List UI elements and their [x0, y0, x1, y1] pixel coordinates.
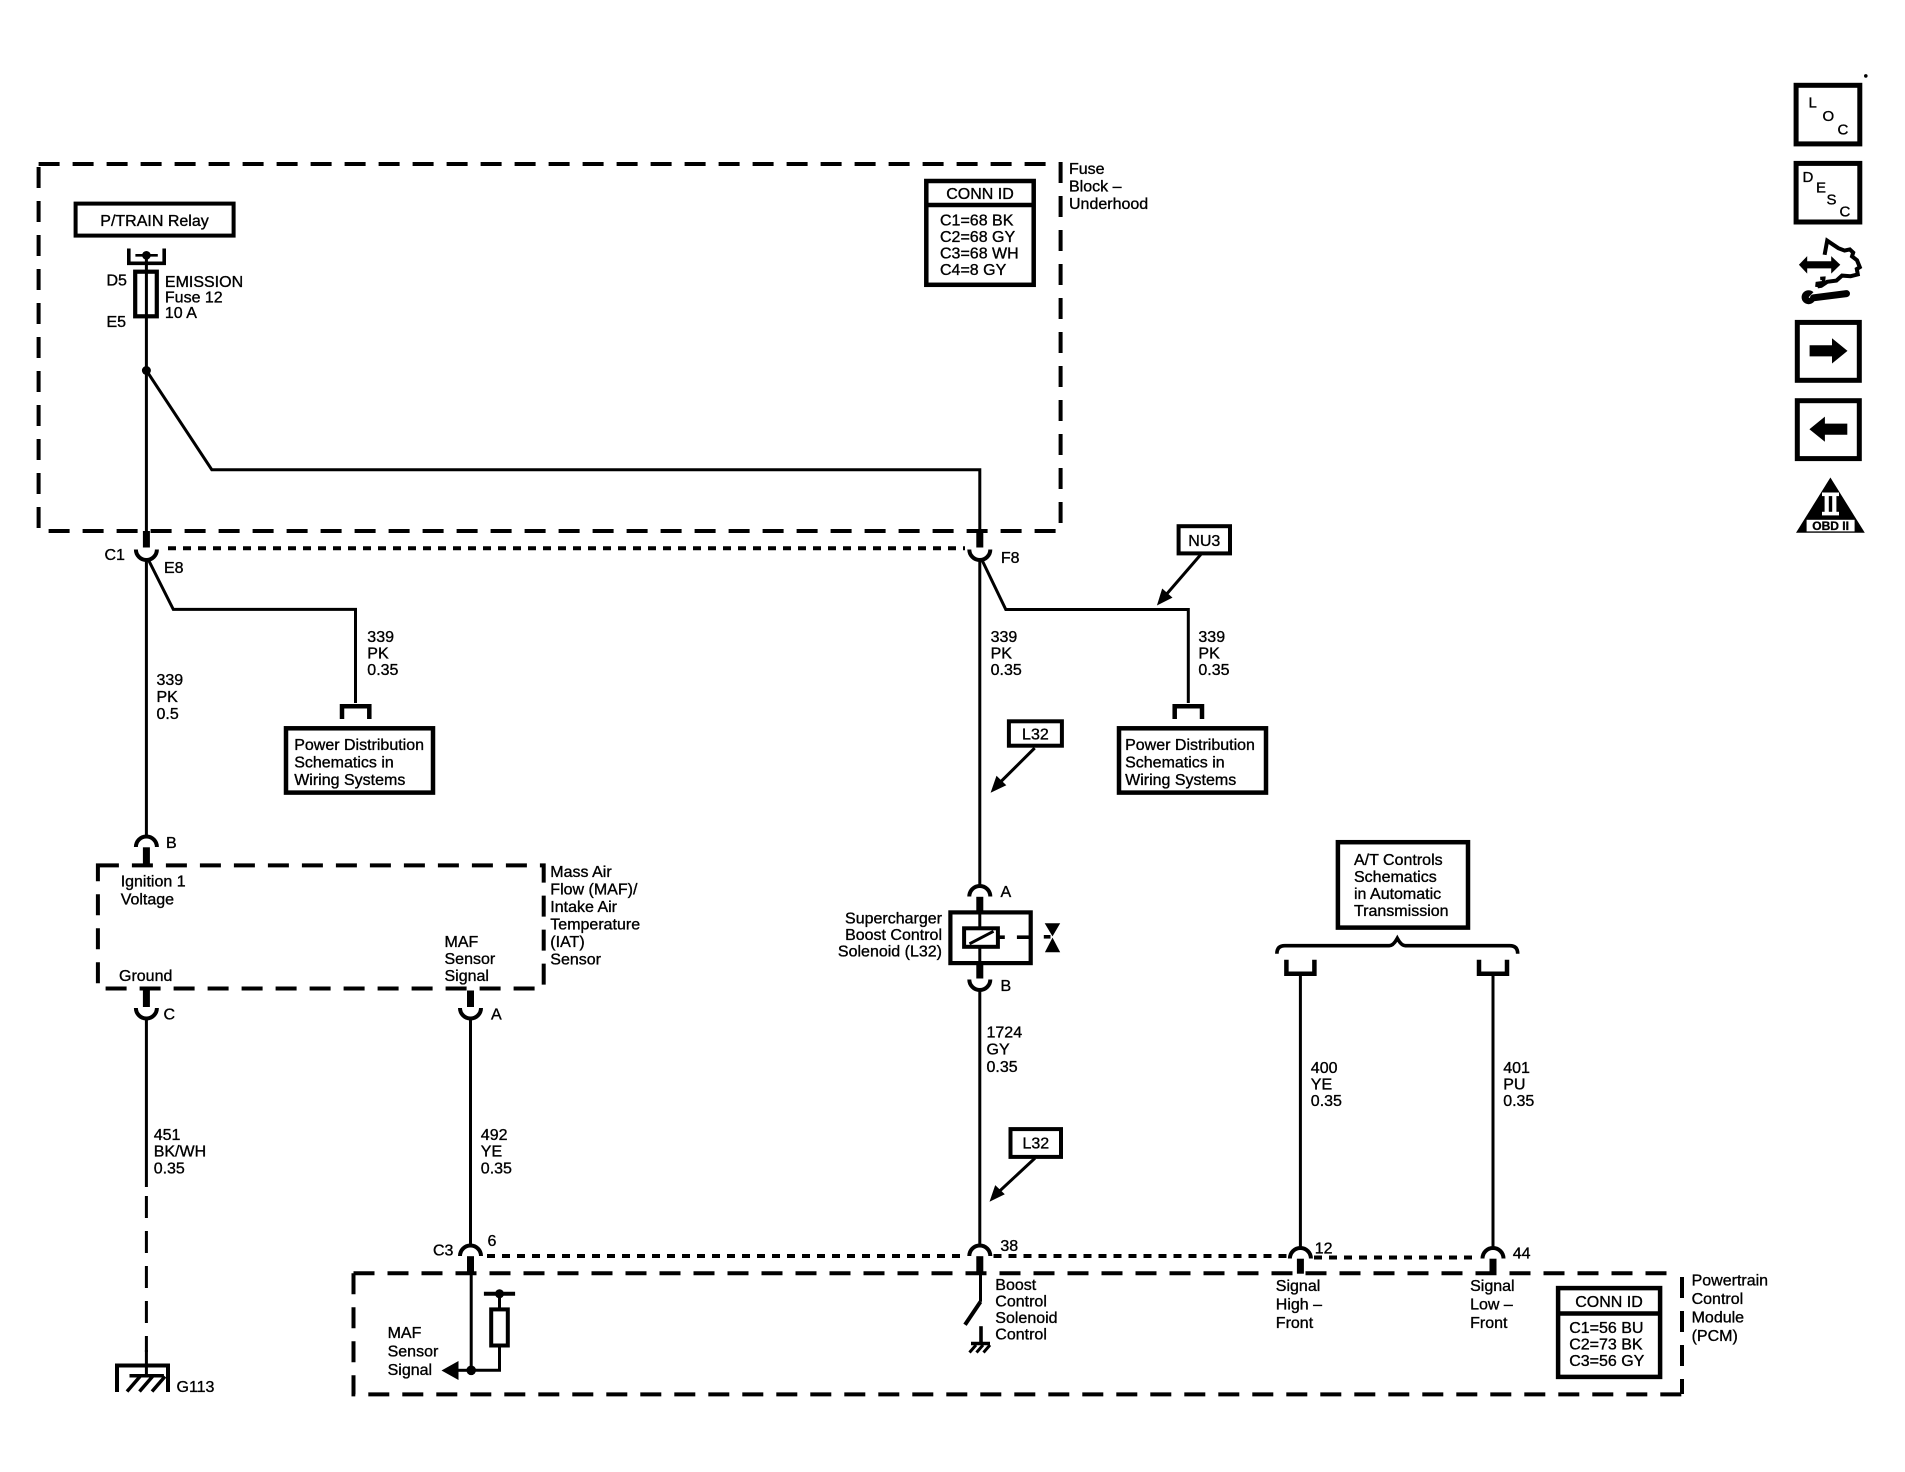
svg-text:PK: PK	[1198, 646, 1220, 663]
PCM wire C3 to junction	[470, 1273, 473, 1370]
wire junction to F8	[146, 371, 979, 532]
power distribution box left	[286, 728, 433, 792]
svg-text:D: D	[1803, 169, 1814, 186]
svg-text:CONN ID: CONN ID	[1575, 1294, 1643, 1311]
svg-text:A: A	[491, 1007, 502, 1024]
svg-text:44: 44	[1513, 1246, 1531, 1263]
svg-text:C1=68 BK: C1=68 BK	[940, 213, 1014, 230]
fuse block underhood dashed box	[39, 164, 1061, 531]
MAF IAT sensor dashed box	[98, 865, 544, 988]
resistor lead to junction	[471, 1346, 499, 1371]
svg-text:High –: High –	[1276, 1297, 1322, 1314]
stray dot top right	[1864, 74, 1868, 78]
svg-text:339: 339	[367, 629, 394, 646]
svg-text:Schematics in: Schematics in	[294, 755, 394, 772]
connector C1 arc	[136, 550, 157, 561]
connector C3 arc	[460, 1246, 481, 1257]
supercharger boost control solenoid box	[950, 912, 1030, 963]
PCM pullup junction dot	[495, 1289, 504, 1298]
connector F8 arc	[969, 550, 990, 561]
svg-text:0.35: 0.35	[367, 662, 398, 679]
brace	[1277, 938, 1518, 953]
svg-text:Control: Control	[1692, 1291, 1744, 1308]
relay terminal junction dot	[142, 251, 151, 260]
wire 38 to switch	[979, 1273, 982, 1302]
junction node	[142, 366, 151, 375]
svg-text:Solenoid: Solenoid	[995, 1310, 1057, 1327]
valve stub	[1044, 935, 1051, 939]
ground G113 hatches	[127, 1377, 140, 1392]
svg-text:Schematics in: Schematics in	[1125, 755, 1225, 772]
svg-text:Temperature: Temperature	[550, 917, 640, 934]
connector B pin	[143, 847, 150, 865]
svg-text:(PCM): (PCM)	[1692, 1328, 1738, 1345]
svg-text:Power Distribution: Power Distribution	[1125, 737, 1255, 754]
svg-text:A: A	[1001, 884, 1012, 901]
svg-text:C1: C1	[105, 547, 126, 564]
junction dot main	[466, 1366, 476, 1376]
CONN ID table fuse block	[926, 181, 1033, 285]
svg-text:BK/WH: BK/WH	[154, 1144, 206, 1161]
wire F8 to solenoid A 339 PK	[978, 558, 981, 886]
svg-text:L32: L32	[1022, 1136, 1049, 1153]
svg-text:1724: 1724	[987, 1025, 1023, 1042]
svg-text:339: 339	[1198, 629, 1225, 646]
icon OBD II triangle	[1796, 478, 1865, 533]
svg-text:P/TRAIN Relay: P/TRAIN Relay	[100, 213, 208, 230]
svg-text:10 A: 10 A	[165, 305, 197, 322]
PCM dashed box	[354, 1271, 1677, 1275]
svg-text:451: 451	[154, 1127, 181, 1144]
svg-text:Intake Air: Intake Air	[550, 899, 617, 916]
icon DESC box	[1796, 163, 1860, 222]
svg-text:Voltage: Voltage	[121, 892, 174, 909]
svg-text:NU3: NU3	[1188, 533, 1220, 550]
svg-text:0.35: 0.35	[991, 662, 1022, 679]
svg-text:38: 38	[1000, 1238, 1018, 1255]
svg-text:6: 6	[488, 1233, 497, 1250]
svg-text:Ignition 1: Ignition 1	[121, 874, 186, 891]
svg-text:D5: D5	[107, 273, 128, 290]
ground G113 bar	[130, 1374, 164, 1378]
MAF signal arrow line	[456, 1369, 471, 1372]
svg-text:339: 339	[157, 672, 184, 689]
svg-text:Control: Control	[995, 1294, 1047, 1311]
svg-text:PK: PK	[157, 689, 179, 706]
svg-text:B: B	[1001, 978, 1012, 995]
svg-text:Sensor: Sensor	[388, 1344, 439, 1361]
wire C1 to B 339 PK 0.5	[145, 558, 148, 837]
PCM pullup T bar	[484, 1292, 515, 1296]
svg-text:Module: Module	[1692, 1310, 1745, 1327]
svg-text:G113: G113	[177, 1379, 215, 1396]
svg-text:O: O	[1823, 108, 1835, 125]
ground G113 bracket	[117, 1366, 168, 1393]
svg-text:Block –: Block –	[1069, 179, 1122, 196]
NU3 arrow	[1165, 554, 1201, 596]
svg-text:Control: Control	[995, 1327, 1047, 1344]
wire E8 branch to power distribution	[148, 559, 356, 703]
CONN ID table PCM	[1558, 1288, 1660, 1377]
MAF signal arrowhead	[442, 1361, 459, 1380]
receptacle above power distribution box	[342, 706, 369, 719]
wire F8 branch to NU3 power distribution	[982, 559, 1189, 703]
svg-text:0.35: 0.35	[154, 1161, 185, 1178]
PCM pullup lead	[498, 1294, 501, 1310]
svg-text:Flow (MAF)/: Flow (MAF)/	[550, 882, 638, 899]
wire 451 BK/WH solid part	[145, 1017, 148, 1188]
svg-text:EMISSION: EMISSION	[165, 274, 243, 291]
connector B arc	[136, 837, 157, 847]
relay terminal bracket	[129, 249, 164, 264]
switch blade	[965, 1302, 981, 1325]
svg-text:Wiring Systems: Wiring Systems	[294, 772, 405, 789]
connector C1 pin	[143, 531, 150, 548]
svg-text:Signal: Signal	[445, 968, 489, 985]
svg-text:0.35: 0.35	[987, 1059, 1018, 1076]
svg-text:Fuse: Fuse	[1069, 161, 1105, 178]
icon back arrow box	[1797, 401, 1859, 459]
svg-text:400: 400	[1311, 1060, 1338, 1077]
icon vehicle double arrow wrench	[1799, 241, 1860, 305]
connector row E8 dotted line	[168, 546, 965, 550]
wire 1724 GY solenoid B to 38	[978, 988, 981, 1245]
solenoid coil	[964, 928, 998, 947]
svg-text:Boost: Boost	[995, 1277, 1036, 1294]
valve hourglass	[1045, 923, 1061, 936]
svg-text:Powertrain: Powertrain	[1692, 1273, 1768, 1290]
svg-text:OBD II: OBD II	[1812, 519, 1849, 533]
svg-text:0.35: 0.35	[1198, 662, 1229, 679]
connector 44 pin	[1490, 1259, 1497, 1274]
svg-text:Sensor: Sensor	[445, 951, 496, 968]
svg-text:Signal: Signal	[1470, 1278, 1514, 1295]
svg-text:Signal: Signal	[1276, 1278, 1320, 1295]
svg-text:MAF: MAF	[445, 934, 479, 951]
boost ground stub	[979, 1326, 983, 1343]
svg-text:S: S	[1827, 192, 1837, 209]
svg-text:Supercharger: Supercharger	[845, 911, 943, 928]
fuse EMISSION Fuse 12 10A	[135, 272, 157, 317]
L32 arrow lower	[997, 1158, 1035, 1193]
receptacle 400	[1286, 960, 1314, 974]
NU3 callout box	[1179, 526, 1230, 553]
svg-text:Power Distribution: Power Distribution	[294, 737, 424, 754]
svg-text:Transmission: Transmission	[1354, 903, 1449, 920]
icon LOC box	[1796, 85, 1860, 144]
L32 callout box upper	[1009, 721, 1062, 745]
svg-text:Sensor: Sensor	[550, 952, 601, 969]
svg-text:C3: C3	[433, 1243, 454, 1260]
connector 38 pin	[976, 1256, 983, 1273]
svg-text:Solenoid (L32): Solenoid (L32)	[838, 944, 942, 961]
connector 38 arc	[969, 1246, 990, 1257]
svg-text:0.35: 0.35	[1311, 1093, 1342, 1110]
resistor	[491, 1309, 508, 1345]
svg-text:C4=8 GY: C4=8 GY	[940, 262, 1007, 279]
svg-text:(IAT): (IAT)	[550, 934, 584, 951]
connector A arc	[460, 1008, 481, 1019]
svg-text:E8: E8	[164, 560, 184, 577]
receptacle 401	[1479, 960, 1507, 974]
svg-text:492: 492	[481, 1127, 508, 1144]
svg-text:Fuse 12: Fuse 12	[165, 290, 223, 307]
svg-text:401: 401	[1503, 1060, 1530, 1077]
connector A solenoid pin	[976, 897, 983, 913]
connector C3 pin	[467, 1256, 474, 1273]
solenoid dashes to box edge	[998, 935, 1005, 939]
connector 44 arc	[1483, 1248, 1504, 1259]
svg-text:Underhood: Underhood	[1069, 196, 1148, 213]
svg-text:12: 12	[1315, 1241, 1333, 1258]
svg-text:0.35: 0.35	[1503, 1093, 1534, 1110]
svg-text:C3=56 GY: C3=56 GY	[1569, 1353, 1644, 1370]
wire 401 PU	[1492, 976, 1495, 1248]
icon forward arrow box	[1797, 322, 1859, 380]
P/TRAIN Relay box	[76, 204, 234, 236]
connector A solenoid arc	[969, 886, 990, 897]
connector F8 pin	[976, 531, 983, 548]
wire 400 YE	[1299, 976, 1302, 1248]
wire 451 BK/WH dashed part	[145, 1196, 148, 1352]
connector 12 pin	[1297, 1259, 1304, 1274]
svg-text:A/T Controls: A/T Controls	[1354, 852, 1443, 869]
svg-text:Front: Front	[1470, 1315, 1508, 1332]
power distribution box right	[1119, 728, 1266, 792]
A/T controls box	[1338, 842, 1468, 927]
svg-text:GY: GY	[987, 1042, 1010, 1059]
svg-text:0.35: 0.35	[481, 1161, 512, 1178]
solenoid internal wire	[978, 912, 981, 963]
svg-text:Low –: Low –	[1470, 1297, 1513, 1314]
connector row 2 dotted line	[487, 1254, 966, 1258]
svg-text:PK: PK	[367, 646, 389, 663]
receptacle above power distribution box right	[1175, 706, 1202, 719]
svg-text:B: B	[166, 835, 177, 852]
svg-text:Ground: Ground	[119, 968, 172, 985]
boost ground bar	[971, 1342, 990, 1345]
connector C arc	[136, 1008, 157, 1019]
connector 12 arc	[1290, 1248, 1311, 1259]
svg-text:PK: PK	[991, 646, 1013, 663]
L32 arrow upper	[1000, 748, 1035, 783]
svg-text:C1=56 BU: C1=56 BU	[1569, 1320, 1643, 1337]
connector B solenoid arc	[969, 980, 990, 991]
wire 492 YE A to C3	[469, 1017, 472, 1246]
svg-text:PU: PU	[1503, 1077, 1525, 1094]
svg-text:L32: L32	[1022, 727, 1049, 744]
boost ground hatches	[970, 1345, 977, 1353]
wire junction to C1	[145, 371, 148, 532]
svg-text:CONN ID: CONN ID	[946, 186, 1014, 203]
svg-text:L: L	[1809, 95, 1817, 112]
svg-text:Schematics: Schematics	[1354, 869, 1437, 886]
svg-text:0.5: 0.5	[157, 706, 179, 723]
svg-text:Mass Air: Mass Air	[550, 864, 612, 881]
svg-text:C2=68 GY: C2=68 GY	[940, 229, 1015, 246]
relay terminal stub wire	[135, 254, 157, 257]
svg-text:E: E	[1816, 180, 1826, 197]
wire relay to fuse to junction	[145, 255, 148, 370]
svg-text:in Automatic: in Automatic	[1354, 886, 1441, 903]
svg-text:339: 339	[991, 629, 1018, 646]
connector C pin	[143, 991, 150, 1008]
connector B solenoid pin	[976, 963, 983, 979]
svg-text:MAF: MAF	[388, 1325, 422, 1342]
svg-text:C: C	[164, 1007, 176, 1024]
svg-text:E5: E5	[107, 314, 127, 331]
L32 callout box lower	[1011, 1129, 1062, 1157]
svg-text:Front: Front	[1276, 1315, 1314, 1332]
svg-text:YE: YE	[481, 1144, 502, 1161]
svg-text:C3=68 WH: C3=68 WH	[940, 246, 1019, 263]
svg-text:F8: F8	[1001, 550, 1020, 567]
svg-text:YE: YE	[1311, 1077, 1332, 1094]
svg-text:Boost Control: Boost Control	[845, 927, 942, 944]
svg-text:Wiring Systems: Wiring Systems	[1125, 772, 1236, 789]
svg-text:C: C	[1840, 204, 1851, 221]
svg-text:C2=73 BK: C2=73 BK	[1569, 1337, 1643, 1354]
svg-text:Signal: Signal	[388, 1362, 432, 1379]
connector A pin	[467, 991, 474, 1008]
svg-text:C: C	[1838, 122, 1849, 139]
